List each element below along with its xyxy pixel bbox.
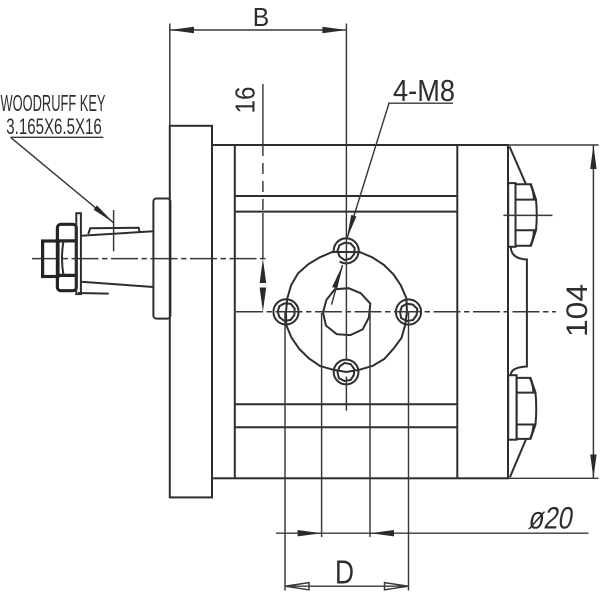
bearing boss (153, 199, 170, 319)
rear cover top chamfer (510, 147, 527, 185)
diameter 20 dimension (276, 313, 589, 537)
body front joint line (234, 145, 236, 478)
svg-text:D: D (335, 554, 354, 591)
flange horizontal centerline (236, 311, 556, 313)
tapered shaft (81, 231, 153, 287)
flange center hole (323, 288, 370, 335)
svg-text:WOODRUFF KEY: WOODRUFF KEY (1, 90, 106, 116)
top plug center tick (503, 214, 552, 216)
svg-text:B: B (253, 2, 270, 32)
bottom plug hex head (517, 378, 537, 439)
body rear joint line (456, 145, 458, 478)
rear cover bottom chamfer (510, 438, 527, 477)
bottom bolt hole (334, 360, 359, 385)
svg-text:16: 16 (230, 87, 261, 114)
right bolt hole (396, 299, 421, 324)
D dimension (285, 312, 409, 591)
mounting flange plate (170, 126, 212, 498)
top bolt hole M8 (334, 238, 359, 263)
top plug hex head (516, 184, 537, 245)
pump body outline (212, 145, 508, 478)
shaft centerline (32, 258, 268, 260)
shaft threaded stub (43, 241, 58, 277)
tab washer plate (76, 213, 108, 294)
16 dimension (230, 84, 267, 312)
bottom plug washer (508, 375, 516, 440)
B dimension (170, 2, 347, 126)
svg-text:104: 104 (561, 284, 594, 337)
top plug washer (508, 183, 515, 247)
end cover ridge (511, 248, 527, 375)
woodruff key (88, 228, 139, 234)
left bolt hole (273, 299, 298, 324)
WOODRUFF KEY label (1, 90, 114, 223)
hex nut (57, 224, 76, 290)
4-M8 label (332, 73, 456, 305)
top port boss lines (235, 196, 457, 212)
104 dimension (508, 145, 599, 478)
bottom port boss lines (235, 404, 457, 427)
svg-text:3.165X6.5X16: 3.165X6.5X16 (6, 114, 102, 139)
flange pitch circle (286, 252, 407, 372)
svg-text:ø20: ø20 (526, 501, 576, 536)
flange vertical centerline (345, 24, 347, 411)
key center mark (113, 210, 115, 251)
